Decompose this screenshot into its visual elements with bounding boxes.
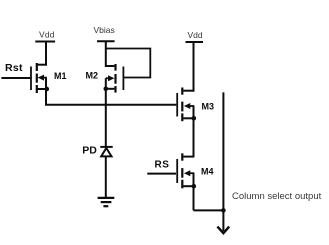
svg-text:Column select output: Column select output xyxy=(232,191,322,202)
svg-text:M2: M2 xyxy=(86,70,99,80)
svg-text:PD: PD xyxy=(82,145,97,157)
svg-text:Rst: Rst xyxy=(5,62,23,74)
svg-text:Vbias: Vbias xyxy=(94,25,115,35)
svg-text:RS: RS xyxy=(155,160,170,171)
svg-text:M3: M3 xyxy=(202,101,215,111)
svg-text:M4: M4 xyxy=(201,166,214,176)
svg-text:Vdd: Vdd xyxy=(39,30,55,40)
svg-text:M1: M1 xyxy=(54,71,67,81)
svg-text:Vdd: Vdd xyxy=(188,30,203,40)
